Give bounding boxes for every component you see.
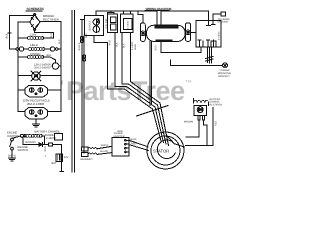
svg-text:BLK: BLK bbox=[85, 33, 88, 38]
label BRN bbox=[118, 130, 123, 133]
label BAT bbox=[52, 162, 57, 165]
title WIRING DIAGRAM bbox=[146, 7, 172, 11]
svg-text:120 VOLT: 120 VOLT bbox=[89, 20, 92, 31]
bundle from box with ties bbox=[207, 47, 209, 63]
wire ignition to winding bbox=[13, 136, 20, 138]
label RED vertical bbox=[215, 121, 218, 126]
svg-text:+: + bbox=[45, 154, 47, 158]
svg-text:RED: RED bbox=[61, 80, 64, 85]
receptacle R1 bbox=[25, 85, 47, 97]
wires TB to stator bbox=[129, 140, 148, 147]
label 120V RECEPTACLE bbox=[23, 99, 51, 107]
wire engine to box bottom bbox=[161, 47, 201, 53]
diode D1 bbox=[39, 143, 43, 147]
wire inner left bus bbox=[17, 38, 19, 112]
wire box2 down bbox=[114, 33, 116, 87]
stator S1 bbox=[147, 132, 184, 169]
tie line across bundle bbox=[137, 106, 169, 117]
connector CN1 bbox=[82, 147, 89, 151]
svg-text:20A 2-14000: 20A 2-14000 bbox=[27, 102, 44, 106]
wire receptacle R1 bbox=[18, 89, 25, 91]
pins below rectifier bbox=[198, 116, 200, 121]
wire bridge bottom bbox=[35, 31, 54, 39]
label BROWN bbox=[184, 121, 193, 124]
svg-text:BLK: BLK bbox=[115, 42, 118, 47]
wire pair to connectors bbox=[81, 20, 83, 147]
circuit breaker CB1 bbox=[52, 63, 59, 70]
wire breaker to bus bbox=[59, 65, 61, 67]
svg-text:WHT: WHT bbox=[109, 40, 112, 46]
label BLK bbox=[47, 54, 52, 57]
wire control to stator right bbox=[212, 108, 214, 146]
receptacle plug P1 (circle with X) bbox=[32, 72, 40, 80]
label 12V bbox=[64, 156, 69, 159]
label + bbox=[45, 154, 47, 158]
svg-text:BATTERY CHARGE: BATTERY CHARGE bbox=[35, 129, 60, 133]
svg-text:BROWN: BROWN bbox=[184, 121, 193, 124]
engine E1 bbox=[147, 25, 186, 41]
wire top bus bbox=[96, 11, 157, 25]
battery charge choke coil bbox=[193, 100, 208, 103]
label WHITE bbox=[44, 146, 47, 152]
svg-text:2-14000: 2-14000 bbox=[131, 41, 134, 50]
label BROWN bbox=[26, 141, 36, 144]
wire battery charge right bbox=[42, 135, 45, 137]
label SHT-N bbox=[8, 155, 16, 158]
svg-text:LEAD: LEAD bbox=[134, 44, 137, 50]
connector circles bbox=[80, 37, 83, 40]
svg-text:GROUND: GROUND bbox=[218, 21, 229, 24]
receptacle R2 bbox=[25, 107, 47, 119]
label BATTERY CHARGE bbox=[35, 129, 60, 133]
svg-text:™: ™ bbox=[185, 80, 192, 87]
winding 115V W1 bbox=[30, 33, 36, 37]
wire engine down pair bbox=[149, 42, 151, 106]
engine switch SW1 bbox=[11, 138, 14, 141]
svg-text:RED: RED bbox=[155, 45, 158, 50]
battery charge rectifier box D2 bbox=[194, 105, 207, 115]
connector CN2 bbox=[82, 152, 89, 156]
label BLK bbox=[85, 33, 88, 38]
svg-text:BLK: BLK bbox=[50, 33, 53, 38]
winding battery charge W4 bbox=[21, 134, 24, 137]
terminals top bbox=[207, 20, 209, 25]
ground G1 below receptacle bbox=[35, 119, 37, 124]
svg-text:WHITE: WHITE bbox=[101, 144, 109, 147]
svg-text:RED: RED bbox=[131, 142, 136, 145]
winding POWER W3 bbox=[30, 52, 41, 56]
bridge rectifier BR1 bbox=[30, 14, 40, 31]
terminal block TB1 bbox=[113, 132, 125, 138]
label 2-14000 LEAD bbox=[131, 41, 137, 50]
label RED bbox=[155, 45, 158, 50]
label BLK right bus bbox=[58, 39, 61, 44]
label GROMMET bbox=[80, 158, 93, 161]
wire box3 down bbox=[121, 33, 123, 84]
wire rectifier to stator bbox=[186, 120, 199, 137]
control box CTRL bbox=[196, 20, 221, 47]
wire lead down bbox=[129, 33, 131, 82]
label BLACK bbox=[78, 42, 81, 50]
winding FIELD W2 bbox=[30, 43, 38, 47]
svg-text:BLACK: BLACK bbox=[78, 42, 81, 50]
label BRIDGE RECTIFIER bbox=[43, 14, 60, 21]
svg-text:BROWN: BROWN bbox=[26, 141, 36, 144]
receptacle box RB1 bbox=[85, 16, 104, 36]
ground G2 engine switch bbox=[9, 157, 16, 159]
panel divider bbox=[71, 11, 73, 173]
rotated wire labels bbox=[143, 93, 161, 112]
label box right bbox=[218, 31, 221, 40]
svg-text:SHT-N: SHT-N bbox=[8, 155, 16, 158]
wire bundle bends bbox=[108, 89, 162, 141]
switch box SB1 bbox=[121, 14, 134, 32]
svg-text:WHT: WHT bbox=[44, 146, 47, 152]
wire to battery bbox=[61, 145, 63, 172]
label BLK bbox=[50, 33, 53, 38]
label BLK bbox=[123, 43, 126, 48]
label BLK bbox=[115, 42, 118, 47]
label WHITE bbox=[101, 144, 109, 147]
label RED bbox=[131, 142, 136, 145]
svg-text:12V: 12V bbox=[64, 156, 69, 159]
wire right bus bbox=[60, 21, 62, 111]
svg-text:BRACKET: BRACKET bbox=[218, 75, 230, 78]
svg-text:BAT: BAT bbox=[52, 162, 57, 165]
svg-text:BLK: BLK bbox=[123, 43, 126, 48]
svg-text:BLK: BLK bbox=[58, 39, 61, 44]
fuse F1 bbox=[48, 143, 52, 146]
bolt symbol to base bbox=[223, 63, 228, 68]
wire ground run bbox=[160, 42, 162, 53]
svg-text:BLK: BLK bbox=[6, 33, 9, 38]
svg-text:20A 2-140007: 20A 2-140007 bbox=[34, 67, 51, 70]
svg-text:2-14000: 2-14000 bbox=[218, 31, 221, 40]
title SCHEMATIC bbox=[27, 7, 45, 11]
svg-text:STATOR: STATOR bbox=[153, 149, 169, 154]
label ENGINE SWITCH bbox=[18, 146, 29, 152]
battery B1 bbox=[56, 154, 62, 161]
svg-text:GROMMET: GROMMET bbox=[80, 158, 93, 161]
label BATTERY CHARGE RECTIFIER bbox=[210, 98, 223, 107]
tick on left bus bbox=[8, 32, 11, 34]
frame ground square bbox=[213, 13, 221, 15]
svg-text:2-14000: 2-14000 bbox=[127, 20, 130, 29]
wire box1 to bundle bbox=[94, 35, 108, 89]
svg-text:POWER: POWER bbox=[30, 52, 41, 56]
label DIODE 2-14000 bbox=[45, 134, 56, 140]
wire bridge left to inner bus bbox=[18, 22, 30, 38]
svg-text:RECTIFIER: RECTIFIER bbox=[43, 17, 60, 21]
svg-text:C.B. 20A: C.B. 20A bbox=[105, 19, 108, 29]
label RED right bus bbox=[61, 80, 64, 85]
label BLK left bus bbox=[6, 33, 9, 38]
breaker box CB2 bbox=[108, 14, 118, 33]
svg-text:115V: 115V bbox=[30, 33, 36, 37]
wire receptacle R2 bbox=[18, 111, 25, 113]
svg-text:SWITCH: SWITCH bbox=[18, 149, 29, 152]
wire plug row bbox=[18, 74, 32, 76]
svg-text:RED: RED bbox=[215, 121, 218, 126]
label 12A / 20A bbox=[34, 63, 51, 69]
terminals bottom bbox=[199, 40, 201, 47]
label BLUE bbox=[131, 138, 138, 141]
wire diode row bbox=[22, 137, 24, 144]
svg-text:FIELD: FIELD bbox=[30, 43, 38, 47]
wire top bus bbox=[10, 16, 35, 50]
label WHT bbox=[109, 40, 112, 46]
svg-text:RECTIFIER: RECTIFIER bbox=[210, 103, 223, 106]
label BLACK bbox=[100, 150, 108, 153]
wire bridge right bbox=[40, 21, 61, 38]
svg-text:BLACK: BLACK bbox=[100, 150, 108, 153]
watermark PartsTree bbox=[66, 76, 192, 106]
stator internal spokes bbox=[168, 137, 175, 144]
engine ignition label bbox=[7, 132, 19, 138]
wire power to breaker bbox=[43, 57, 56, 63]
svg-text:BLUE: BLUE bbox=[131, 138, 138, 141]
